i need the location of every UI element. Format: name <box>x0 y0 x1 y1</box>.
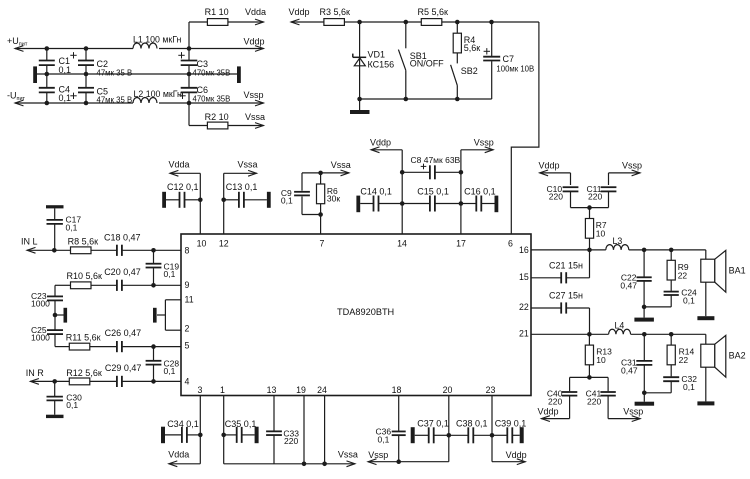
svg-text:13: 13 <box>267 385 277 395</box>
svg-text:Vssa: Vssa <box>245 112 265 122</box>
svg-text:1: 1 <box>220 385 225 395</box>
pin 2 label <box>185 324 190 334</box>
svg-text:Vssa: Vssa <box>331 160 351 170</box>
node -Upit <box>7 91 26 103</box>
ground BA1 <box>697 316 714 320</box>
svg-text:100мк 10В: 100мк 10В <box>496 64 534 73</box>
svg-text:Vssp: Vssp <box>368 450 388 460</box>
capacitor C3 <box>178 52 230 77</box>
capacitor C36 <box>376 427 406 445</box>
capacitor C9 <box>281 173 310 215</box>
svg-text:22: 22 <box>519 302 529 312</box>
capacitor C7 <box>483 22 534 99</box>
capacitor C40 <box>547 377 577 418</box>
svg-text:IN L: IN L <box>21 237 38 247</box>
wire pin17 column <box>460 150 462 234</box>
node IN R <box>26 368 45 384</box>
capacitor C35 <box>221 419 258 443</box>
svg-text:R8 5,6к: R8 5,6к <box>68 237 99 247</box>
node Vddp arrow C40 <box>538 407 570 422</box>
wire pin1 column <box>223 396 225 464</box>
node Vssa <box>245 112 265 122</box>
wire pin13 column <box>273 396 275 464</box>
svg-text:Vddp: Vddp <box>539 160 560 170</box>
resistor R12 <box>66 368 102 385</box>
switch SB1 <box>398 22 444 99</box>
svg-text:24: 24 <box>317 385 327 395</box>
svg-text:L1 100 мкГн: L1 100 мкГн <box>133 35 182 45</box>
svg-text:0,1: 0,1 <box>164 269 176 279</box>
svg-text:16: 16 <box>519 245 529 255</box>
svg-text:220: 220 <box>284 436 298 446</box>
capacitor C33 <box>266 428 299 446</box>
capacitor C19 <box>146 248 180 288</box>
pin 7 label <box>320 239 325 249</box>
capacitor C22 <box>620 250 651 309</box>
svg-text:C34 0,1: C34 0,1 <box>167 419 199 429</box>
svg-text:9: 9 <box>185 280 190 290</box>
svg-text:C8 47мк 63В: C8 47мк 63В <box>411 155 461 165</box>
pin 20 label <box>443 385 453 395</box>
svg-text:220: 220 <box>549 192 563 202</box>
wire pin10 column <box>199 173 201 234</box>
wire R12-C29 <box>90 380 117 382</box>
svg-text:220: 220 <box>587 396 601 406</box>
svg-text:0,47: 0,47 <box>621 366 638 376</box>
wire mid ground rail <box>37 72 237 77</box>
pin 1 label <box>220 385 225 395</box>
capacitor C13 <box>221 182 270 208</box>
capacitor C6 <box>179 85 230 103</box>
wire L3 to BA1 <box>629 248 706 253</box>
resistor R2 <box>189 112 264 129</box>
wire -U supply rail <box>15 100 264 106</box>
svg-text:Vssp: Vssp <box>244 90 264 100</box>
svg-text:0,1: 0,1 <box>164 366 176 376</box>
capacitor C2 <box>70 52 132 77</box>
capacitor C31 <box>621 334 652 395</box>
svg-text:L4: L4 <box>615 321 625 331</box>
svg-text:C12 0,1: C12 0,1 <box>167 182 199 192</box>
svg-text:Vssa: Vssa <box>238 160 258 170</box>
node Vddp <box>244 37 265 47</box>
svg-text:1000: 1000 <box>31 333 50 343</box>
svg-text:21: 21 <box>519 328 529 338</box>
pin 22 label <box>519 302 529 312</box>
svg-text:0,1: 0,1 <box>281 196 293 206</box>
svg-text:0,1: 0,1 <box>683 382 695 392</box>
resistor R6 <box>317 173 341 234</box>
svg-text:R1 10: R1 10 <box>205 7 229 17</box>
wire C10-C11 tie <box>571 205 609 210</box>
node Vssa arrow C13 <box>224 160 258 177</box>
svg-text:C16 0,1: C16 0,1 <box>464 187 496 197</box>
svg-text:0,1: 0,1 <box>66 400 78 410</box>
node Vssa bottom <box>338 450 358 460</box>
svg-text:ON/OFF: ON/OFF <box>410 59 444 69</box>
speaker BA2 <box>701 334 746 401</box>
inductor L1 <box>133 35 182 49</box>
capacitor C27 <box>531 290 590 334</box>
pin 10 label <box>197 239 207 249</box>
svg-text:7: 7 <box>320 239 325 249</box>
svg-text:Vddp: Vddp <box>289 7 310 17</box>
capacitor C15 <box>402 187 463 212</box>
wire pin21 line <box>531 332 609 337</box>
svg-text:19: 19 <box>296 385 306 395</box>
pin 14 label <box>397 239 407 249</box>
ground BA2 <box>697 401 714 405</box>
svg-text:0,1: 0,1 <box>59 65 72 75</box>
wire C31-C32 tie <box>644 392 671 394</box>
node Vssp arrow mid <box>461 137 494 152</box>
wire C22-C24 tie <box>644 306 671 308</box>
wire C9 bottom <box>302 212 323 217</box>
resistor R4 <box>453 22 480 63</box>
node Vssp bottom <box>368 450 388 460</box>
capacitor C30 <box>47 381 83 414</box>
svg-text:C13 0,1: C13 0,1 <box>226 182 258 192</box>
svg-text:L3: L3 <box>613 236 623 246</box>
pin 4 label <box>185 377 190 387</box>
svg-text:Vdda: Vdda <box>169 160 190 170</box>
resistor R13 <box>585 334 612 379</box>
svg-text:17: 17 <box>456 239 466 249</box>
wire pin11-pin2 bracket <box>157 300 181 330</box>
svg-text:C39 0,1: C39 0,1 <box>495 418 527 428</box>
wire pin24 column <box>322 396 327 467</box>
svg-text:BA1: BA1 <box>729 266 746 276</box>
svg-text:12: 12 <box>219 239 229 249</box>
svg-text:TDA8920BTH: TDA8920BTH <box>337 307 394 317</box>
inductor L2 <box>133 89 182 103</box>
ground C30 <box>46 415 64 418</box>
svg-text:C7: C7 <box>503 54 515 64</box>
capacitor C17 <box>47 215 82 251</box>
pin 9 label <box>185 280 190 290</box>
svg-text:R3 5,6к: R3 5,6к <box>320 7 351 17</box>
node Vddp arrow C10 <box>539 160 571 176</box>
svg-text:R2 10: R2 10 <box>205 112 229 122</box>
svg-text:11: 11 <box>185 295 194 305</box>
wire C2-C5 column <box>85 49 87 104</box>
node Vdda bottom <box>168 450 189 460</box>
wire Vssp rail bottom <box>368 459 449 465</box>
svg-text:20: 20 <box>443 385 453 395</box>
resistor R10 <box>67 271 103 288</box>
node Vssp arrow C11 <box>609 160 643 176</box>
ground left bar <box>33 66 37 83</box>
wire R8-C18 <box>91 249 117 251</box>
resistor R14 <box>667 334 694 376</box>
svg-text:R11 5,6к: R11 5,6к <box>66 333 101 343</box>
op-amp U1 TDA8920BTH <box>181 234 531 396</box>
svg-text:18: 18 <box>392 385 402 395</box>
svg-text:КС156: КС156 <box>368 59 395 69</box>
resistor R1 <box>189 7 264 25</box>
capacitor C10 <box>547 173 579 208</box>
pin 8 label <box>185 245 190 255</box>
ground pin11-2 <box>153 308 157 323</box>
svg-text:Vssp: Vssp <box>623 407 643 417</box>
pin 24 label <box>317 385 327 395</box>
svg-text:23: 23 <box>486 385 496 395</box>
pin 18 label <box>392 385 402 395</box>
svg-text:8: 8 <box>185 245 190 255</box>
capacitor C37 <box>411 418 449 443</box>
resistor R5 <box>418 7 449 25</box>
svg-text:Vdda: Vdda <box>245 7 266 17</box>
svg-text:Vddp: Vddp <box>244 37 265 47</box>
svg-text:0,47: 0,47 <box>620 280 637 290</box>
svg-text:15: 15 <box>519 272 529 282</box>
pin 15 label <box>519 272 529 282</box>
zener VD1 <box>353 22 394 99</box>
node Vddp R3 <box>289 7 310 17</box>
node Vssa arrow R6 <box>302 160 351 176</box>
wire to pin6 <box>511 22 539 234</box>
pin 17 label <box>456 239 466 249</box>
node Vdda <box>245 7 266 17</box>
svg-text:0,1: 0,1 <box>59 93 72 103</box>
capacitor C24 <box>664 288 697 307</box>
svg-text:C18 0,47: C18 0,47 <box>104 232 141 242</box>
capacitor C8 <box>400 155 463 180</box>
svg-text:22: 22 <box>679 355 689 365</box>
pin 12 label <box>219 239 229 249</box>
wire INL line <box>27 248 71 253</box>
wire pin5 line <box>55 346 69 348</box>
svg-text:5: 5 <box>185 340 190 350</box>
svg-text:14: 14 <box>397 239 407 249</box>
svg-text:Vdda: Vdda <box>168 450 189 460</box>
wire Vssa rail <box>224 461 355 467</box>
svg-text:47мк 35 В: 47мк 35 В <box>97 68 133 77</box>
ground C23-C25 <box>53 308 67 323</box>
node Vdda arrow <box>169 160 201 177</box>
wire pin19 column <box>302 396 307 467</box>
resistor R9 <box>667 250 689 291</box>
svg-text:C27 15н: C27 15н <box>549 290 583 300</box>
node Vssp arrow C41 <box>608 407 643 422</box>
svg-text:5,6к: 5,6к <box>464 43 481 53</box>
svg-text:R10 5,6к: R10 5,6к <box>67 271 103 281</box>
capacitor C5 <box>70 87 132 105</box>
svg-text:C38 0,1: C38 0,1 <box>456 418 488 428</box>
svg-text:C26 0,47: C26 0,47 <box>105 328 142 338</box>
node Vddp bottom right <box>506 450 527 460</box>
svg-text:10: 10 <box>197 239 207 249</box>
svg-text:10: 10 <box>596 229 606 239</box>
svg-text:Vssp: Vssp <box>622 160 642 170</box>
svg-text:C14 0,1: C14 0,1 <box>360 187 392 197</box>
capacitor C39 <box>492 418 526 443</box>
svg-text:IN R: IN R <box>26 368 45 378</box>
svg-text:BA2: BA2 <box>729 351 746 361</box>
pin 23 label <box>486 385 496 395</box>
wire C1-C4 column <box>46 49 48 104</box>
wire control top rail <box>357 20 539 25</box>
svg-text:47мк 35 В: 47мк 35 В <box>97 95 133 104</box>
pin 13 label <box>267 385 277 395</box>
inductor L4 <box>609 321 631 335</box>
svg-text:C29 0,47: C29 0,47 <box>105 363 142 373</box>
svg-text:0,1: 0,1 <box>378 434 390 444</box>
svg-text:Vddp: Vddp <box>538 407 559 417</box>
capacitor C28 <box>146 344 180 383</box>
svg-text:Vddp: Vddp <box>370 137 391 147</box>
wire R11-C26 <box>90 346 117 348</box>
ground C22 <box>634 307 654 322</box>
pin 19 label <box>296 385 306 395</box>
pin 3 label <box>198 385 203 395</box>
wire C3-C6 column <box>188 22 190 126</box>
resistor R8 <box>68 237 99 254</box>
svg-text:0,1: 0,1 <box>683 295 695 305</box>
svg-text:C21 15н: C21 15н <box>549 261 583 271</box>
node Vddp arrow mid <box>370 137 402 152</box>
pin 6 label <box>508 239 513 249</box>
capacitor C11 <box>587 173 617 208</box>
wire pin18 column <box>396 396 401 465</box>
svg-text:22: 22 <box>678 271 688 281</box>
resistor R7 <box>585 208 607 250</box>
capacitor C32 <box>663 374 697 393</box>
wire pin3 column <box>169 396 201 467</box>
wire pin16 line <box>531 248 606 253</box>
wire INR line <box>30 379 69 384</box>
svg-text:4: 4 <box>185 377 190 387</box>
svg-text:1000: 1000 <box>31 298 50 308</box>
capacitor C29 <box>105 363 181 387</box>
capacitor C16 <box>461 187 498 213</box>
wire R13 tie <box>570 376 609 378</box>
wire +U supply rail <box>15 46 264 52</box>
switch SB2 <box>451 65 478 99</box>
svg-text:R5 5,6к: R5 5,6к <box>418 7 449 17</box>
svg-text:Vddp: Vddp <box>506 450 527 460</box>
svg-text:VD1: VD1 <box>368 50 386 60</box>
wire pin9 line <box>55 284 71 286</box>
wire control bottom rail <box>357 97 491 102</box>
svg-text:Vssa: Vssa <box>338 450 358 460</box>
svg-text:C15 0,1: C15 0,1 <box>417 187 449 197</box>
speaker BA1 <box>701 250 746 316</box>
pin 11 label <box>185 295 194 305</box>
svg-text:220: 220 <box>588 192 602 202</box>
node Vssp <box>244 90 264 100</box>
wire pin23 column <box>492 396 525 465</box>
ground C31 <box>635 393 655 406</box>
wire pin12 column <box>223 173 225 234</box>
svg-text:10: 10 <box>596 355 606 365</box>
svg-text:C35 0,1: C35 0,1 <box>225 419 257 429</box>
wire L4 to BA2 <box>631 332 706 337</box>
pin 21 label <box>519 328 529 338</box>
ground C17 <box>46 205 64 219</box>
wire pin20 column <box>447 396 452 462</box>
wire R10-C20 <box>91 284 117 286</box>
svg-text:2: 2 <box>185 324 190 334</box>
svg-text:0,1: 0,1 <box>66 222 78 232</box>
node IN L <box>21 237 38 254</box>
svg-text:C37 0,1: C37 0,1 <box>417 418 449 428</box>
capacitor C34 <box>161 419 203 443</box>
capacitor C38 <box>449 418 495 443</box>
resistor R3 <box>291 7 360 25</box>
wire C23 column <box>54 285 56 296</box>
capacitor C25 <box>31 315 63 347</box>
capacitor C14 <box>356 187 404 213</box>
svg-text:R12 5,6к: R12 5,6к <box>66 368 102 378</box>
resistor R11 <box>66 333 101 351</box>
svg-text:470мк 35В: 470мк 35В <box>193 94 231 103</box>
svg-text:470мк 35В: 470мк 35В <box>193 68 231 77</box>
capacitor C18 <box>104 232 181 256</box>
capacitor C21 <box>531 250 590 284</box>
capacitor C20 <box>104 267 181 291</box>
capacitor C26 <box>105 328 181 352</box>
capacitor C4 <box>39 85 71 104</box>
wire pin14 column <box>401 150 403 234</box>
ground control <box>350 99 370 114</box>
svg-text:220: 220 <box>548 396 562 406</box>
svg-text:L2 100 мкГн: L2 100 мкГн <box>134 89 183 99</box>
svg-text:Vssp: Vssp <box>474 137 494 147</box>
inductor L3 <box>606 236 629 250</box>
svg-text:30к: 30к <box>327 194 340 204</box>
capacitor C1 <box>39 56 71 75</box>
capacitor C12 <box>162 182 202 208</box>
svg-text:SB2: SB2 <box>461 66 478 76</box>
svg-text:3: 3 <box>198 385 203 395</box>
svg-text:C20 0,47: C20 0,47 <box>104 267 141 277</box>
pin 5 label <box>185 340 190 350</box>
capacitor C41 <box>586 377 616 418</box>
node +Upit <box>7 36 28 48</box>
capacitor C23 <box>31 291 63 315</box>
pin 16 label <box>519 245 529 255</box>
ground right bar <box>237 66 241 83</box>
svg-text:6: 6 <box>508 239 513 249</box>
